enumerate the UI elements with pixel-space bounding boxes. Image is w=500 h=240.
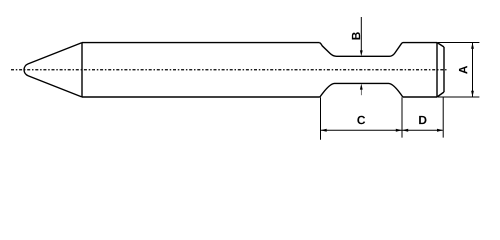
dimension A line <box>472 43 474 97</box>
arrowhead C left <box>321 129 327 132</box>
body bottom line right of groove <box>403 96 437 98</box>
groove top profile <box>320 43 403 57</box>
body bottom line left of groove <box>82 96 320 98</box>
centerline (chain line) <box>11 69 447 71</box>
label B <box>352 32 360 39</box>
end face <box>443 47 445 92</box>
chamfer start edge (full-diameter circle at end) <box>436 43 438 98</box>
label D <box>419 116 426 124</box>
arrowhead B bottom <box>360 84 363 90</box>
dimension D line <box>403 129 443 131</box>
body top line left of groove <box>82 42 320 44</box>
cone-body junction edge <box>81 43 83 98</box>
shared extension line C/D <box>401 97 403 137</box>
dimension A extension line bottom <box>438 96 480 98</box>
arrowhead D left <box>402 129 408 132</box>
arrowhead D right <box>437 129 443 132</box>
groove bottom profile <box>320 83 403 97</box>
arrowhead B top <box>360 50 363 56</box>
dimension B leader (top, arrow down to groove floor) <box>360 17 362 52</box>
arrowhead A bottom <box>471 91 474 97</box>
label A <box>459 66 467 74</box>
nose cone with rounded tip <box>24 43 82 97</box>
label C <box>357 116 365 125</box>
arrowhead C right <box>396 129 402 132</box>
dimension D extension line right <box>442 97 444 137</box>
body top line right of groove <box>403 42 437 44</box>
pin outline: conical point, body, groove, chamfered end <box>24 43 444 98</box>
dimension C extension line left <box>320 97 322 139</box>
dimension C line <box>321 129 402 131</box>
top chamfer <box>437 43 444 48</box>
bottom chamfer <box>437 92 444 97</box>
dimension A extension line top <box>438 42 480 44</box>
arrowhead A top <box>471 43 474 49</box>
dimension B lower arrow (points up to groove ceiling) <box>360 89 362 96</box>
